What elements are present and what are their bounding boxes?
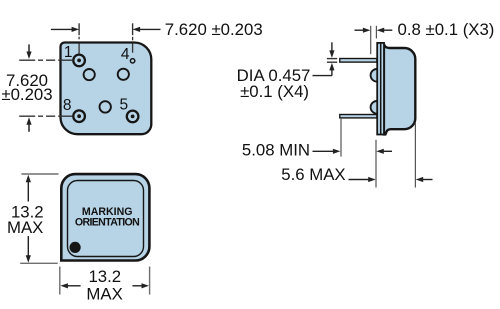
bottom extension line	[20, 262, 58, 264]
extension line at flange face (shared with 5.6)	[375, 140, 377, 188]
top arrow down	[26, 52, 31, 60]
svg-text:4: 4	[121, 46, 130, 63]
dashed projection to pin 1 row	[19, 59, 72, 61]
svg-text:13.2: 13.2	[88, 267, 121, 286]
standoff circle upper-right	[118, 69, 129, 80]
svg-text:8: 8	[63, 97, 72, 114]
svg-text:5: 5	[119, 96, 128, 113]
package body outline (top view)	[61, 174, 149, 260]
right arrow pointing left	[423, 179, 433, 181]
dashed projection to pin 1	[78, 37, 80, 40]
top stem	[28, 44, 30, 52]
dimension: 5.08 MIN pin length	[242, 119, 392, 188]
lower arrow pointing up	[329, 63, 334, 71]
svg-text:0.8 ±0.1 (X3): 0.8 ±0.1 (X3)	[398, 20, 495, 39]
dimension: top 7.620 +/-0.203 (pin 1 to pin 4 spacing)	[51, 20, 263, 54]
dimension: left 7.620 +/-0.203 (pin 1 to pin 8 spacing)	[1, 44, 72, 131]
dashed projection to pin 4	[132, 37, 134, 41]
dimension: DIA 0.457 +/-0.1 (X4) pin diameter	[237, 42, 338, 101]
dimension: 5.6 MAX can depth	[281, 123, 432, 188]
pin 4 pad (index, small)	[130, 59, 134, 63]
bottom arrow up	[26, 117, 31, 125]
right arrow pointing right	[132, 285, 142, 287]
header flange plate	[377, 43, 384, 135]
right arrow pointing left	[383, 150, 392, 152]
extension line at bump apex	[370, 26, 372, 54]
lower stem	[27, 236, 29, 256]
lower tick at pin bottom edge	[327, 61, 337, 63]
dimension line left with arrow	[51, 28, 73, 30]
extension line over pin 4	[132, 23, 134, 35]
svg-text:1: 1	[64, 44, 73, 61]
left arrow pointing right	[355, 29, 364, 31]
right extension line	[149, 267, 151, 295]
left extension line	[59, 267, 61, 295]
svg-text:MAX: MAX	[86, 285, 122, 304]
dimension line right with arrow	[139, 28, 161, 30]
extension line over pin 1	[78, 23, 80, 35]
extension line at can right face	[414, 123, 416, 188]
svg-text:5.08 MIN: 5.08 MIN	[242, 141, 310, 160]
upper tick at pin top edge	[327, 58, 337, 60]
extension line at pin tip	[340, 119, 342, 157]
extension line at flange face	[375, 26, 377, 39]
package body (bottom view)	[61, 43, 152, 135]
upper stem	[27, 182, 29, 202]
left arrow pointing left	[67, 285, 81, 287]
right arrow pointing left	[384, 29, 393, 31]
dashed projection to pin 8 row	[19, 115, 72, 117]
svg-text:5.6 MAX: 5.6 MAX	[281, 165, 345, 184]
pin 5 pad	[127, 111, 139, 123]
upper arrow pointing down	[331, 42, 333, 51]
leader to text	[313, 75, 332, 77]
left arrow pointing right	[349, 179, 370, 181]
down arrow	[26, 255, 31, 262]
svg-text:7.620 ±0.203: 7.620 ±0.203	[165, 20, 263, 39]
standoff bump upper	[371, 69, 384, 82]
pin 1 index dot	[70, 242, 81, 253]
standoff bump lower	[371, 101, 384, 114]
dimension: bottom 13.2 MAX (top view width)	[60, 267, 150, 304]
package inner lid line	[68, 181, 144, 257]
svg-text:±0.1 (X4): ±0.1 (X4)	[240, 82, 309, 101]
body can (side view)	[384, 44, 415, 135]
svg-text:±0.203: ±0.203	[1, 85, 52, 104]
dimension: left 13.2 MAX (top view height)	[7, 174, 58, 263]
svg-text:MAX: MAX	[7, 218, 43, 237]
top extension line	[21, 173, 58, 175]
flange middle seam line	[380, 43, 382, 134]
standoff circle upper-left	[84, 69, 95, 80]
pin bottom (side view)	[340, 115, 377, 118]
up arrow	[26, 175, 31, 183]
pin top (side view)	[340, 59, 377, 63]
pin 1 pad	[73, 55, 85, 67]
left arrow pointing right	[313, 150, 334, 152]
standoff circle lower-center	[100, 101, 111, 112]
dimension: 0.8 +/-0.1 (X3) standoff height	[355, 20, 495, 54]
svg-text:ORIENTATION: ORIENTATION	[75, 217, 139, 229]
pin 8 pad	[73, 110, 85, 122]
bottom stem	[28, 125, 30, 132]
